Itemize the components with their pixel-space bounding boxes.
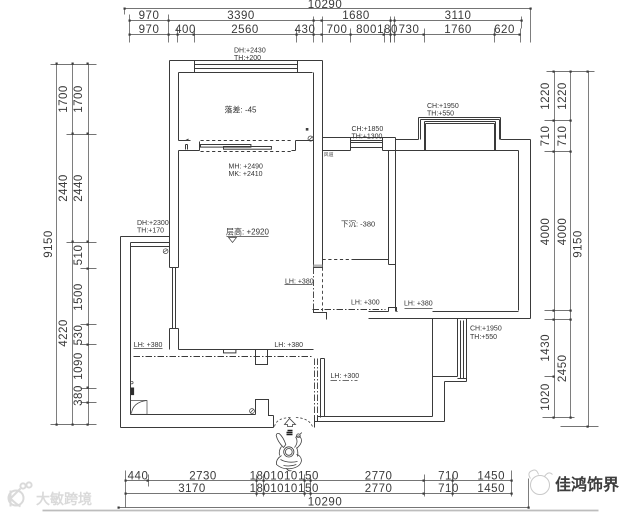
svg-text:1680: 1680	[342, 10, 370, 22]
svg-text:佳鸿饰界: 佳鸿饰界	[555, 475, 619, 494]
svg-text:800: 800	[356, 24, 377, 36]
svg-text:2560: 2560	[231, 24, 259, 36]
axis living-hall dashdot	[313, 268, 315, 310]
window W5 bathroom bay east	[433, 319, 467, 382]
wall entry right jamb	[315, 417, 318, 428]
svg-text:710: 710	[438, 483, 459, 495]
svg-text:LH: +380: LH: +380	[404, 301, 433, 308]
wall bottom left inner	[131, 414, 256, 416]
svg-text:710: 710	[438, 470, 459, 482]
svg-text:180: 180	[250, 483, 271, 495]
svg-text:LH: +300: LH: +300	[351, 300, 380, 307]
drain symbol kitchen	[163, 249, 168, 254]
left chain2 line	[72, 65, 74, 425]
wall kitchen top outer	[121, 236, 170, 238]
watermark right bird sketch	[529, 470, 553, 495]
svg-text:1020: 1020	[540, 383, 552, 411]
watermark left logo glyph	[9, 482, 32, 506]
bottom row B line	[126, 493, 512, 495]
svg-text:2440: 2440	[73, 174, 85, 202]
door jamb NW living	[179, 141, 200, 151]
svg-text:970: 970	[139, 10, 160, 22]
svg-text:150: 150	[298, 483, 319, 495]
wall section hatch cap	[314, 265, 323, 268]
wall west inner	[178, 73, 180, 350]
wall bathroom SE outer	[444, 382, 446, 422]
figure left arm	[276, 433, 286, 447]
figure shoulder arc	[279, 447, 298, 457]
wall bedroom top inner sill	[396, 150, 519, 152]
svg-text:430: 430	[295, 24, 316, 36]
svg-text:440: 440	[128, 470, 149, 482]
LABELS	[137, 48, 459, 237]
PLAN WALLS	[121, 61, 531, 428]
svg-text:1090: 1090	[73, 352, 85, 380]
wall stub living NE	[292, 141, 314, 151]
right chain R1 line	[554, 72, 556, 418]
extension lines top	[130, 15, 522, 43]
window W1 balcony top	[195, 61, 298, 73]
axis dining bottom dashdot	[134, 356, 314, 358]
column living bottom	[256, 350, 268, 365]
bottom grey rule	[43, 510, 599, 512]
window W2 living west	[170, 268, 179, 329]
svg-text:4000: 4000	[540, 218, 552, 246]
wall bedroom top outer	[396, 139, 531, 141]
axis hall bottom dashdot	[313, 309, 386, 311]
svg-text:大敏跨境: 大敏跨境	[36, 491, 92, 507]
right total 9150 line	[588, 72, 590, 427]
wall west outer	[169, 61, 171, 350]
svg-text:1010: 1010	[270, 483, 298, 495]
svg-text:1700: 1700	[73, 85, 85, 113]
svg-text:1760: 1760	[444, 24, 472, 36]
window W4 bedroom bay	[419, 118, 501, 151]
door swing arc right dashed	[295, 418, 313, 427]
DIMS-RIGHT	[543, 72, 599, 427]
window W3 middle room top	[351, 138, 383, 151]
left chain3 line	[88, 65, 90, 425]
bottom total 10290 line	[119, 507, 529, 509]
wall middle room bottom solid	[355, 259, 389, 261]
svg-text:700: 700	[327, 24, 348, 36]
svg-text:2770: 2770	[365, 483, 393, 495]
svg-text:MK: +2410: MK: +2410	[229, 171, 263, 178]
svg-text:620: 620	[494, 24, 515, 36]
jamb arrow mark	[185, 139, 189, 141]
DIMS-BOTTOM	[119, 471, 529, 508]
svg-text:400: 400	[175, 24, 196, 36]
wall balcony top outer	[170, 60, 323, 62]
window W6 kitchen top	[131, 243, 170, 247]
svg-text:1450: 1450	[477, 483, 505, 495]
entry mat bars	[287, 431, 293, 435]
basin kitchen	[131, 401, 148, 415]
door D1 sliding panels	[201, 145, 251, 148]
DIMS-TOP	[125, 9, 531, 43]
wall east of balcony outer	[322, 61, 324, 268]
figure foot	[287, 468, 292, 471]
door sill detail living bottom	[224, 350, 236, 353]
svg-text:1450: 1450	[477, 470, 505, 482]
wall bottom left outer	[121, 427, 274, 429]
svg-text:2440: 2440	[58, 174, 70, 202]
wall bathroom west	[321, 359, 325, 418]
wall kitchen west outer	[120, 237, 122, 428]
svg-text:10290: 10290	[308, 497, 342, 509]
cenggao underline	[227, 236, 269, 238]
svg-text:DH:+2430: DH:+2430	[234, 48, 266, 55]
wall balcony top inner	[179, 72, 313, 74]
svg-text:TH:+200: TH:+200	[234, 55, 261, 62]
svg-text:DH:+2300: DH:+2300	[137, 220, 169, 227]
svg-text:CH:+1950: CH:+1950	[470, 326, 502, 333]
wall middle room top band	[323, 138, 396, 151]
svg-text:1010: 1010	[270, 470, 298, 482]
svg-text:3170: 3170	[178, 483, 206, 495]
svg-text:1500: 1500	[73, 283, 85, 311]
bottom extension lines	[126, 471, 529, 508]
svg-text:CH:+1850: CH:+1850	[352, 126, 384, 133]
wall middle-right band line1	[388, 151, 390, 265]
drain symbol balcony	[308, 136, 313, 141]
svg-text:4000: 4000	[557, 218, 569, 246]
svg-text:510: 510	[73, 245, 85, 266]
svg-text:下沉: -380: 下沉: -380	[341, 220, 375, 229]
wall bedroom bottom outer	[369, 318, 531, 320]
dim row3 line	[130, 34, 521, 36]
wall kitchen west inner	[130, 247, 132, 415]
pipe kitchen	[131, 388, 135, 396]
svg-text:落差: -45: 落差: -45	[225, 105, 258, 115]
svg-text:层高: +2920: 层高: +2920	[226, 227, 269, 237]
pipe circle kitchen	[131, 381, 134, 384]
wall middle-right band line2	[389, 138, 396, 312]
svg-text:710: 710	[557, 126, 569, 147]
figure right arm	[295, 436, 302, 449]
entry arrow	[285, 419, 296, 427]
door swing arc left dashed	[275, 418, 292, 427]
axis entry screen dashdot 1	[314, 359, 316, 417]
svg-text:TH:+550: TH:+550	[427, 110, 454, 117]
svg-text:710: 710	[540, 126, 552, 147]
svg-text:1220: 1220	[557, 82, 569, 110]
dim text top	[139, 0, 515, 36]
wall bathroom east inner	[432, 319, 434, 417]
wall east of balcony inner	[314, 73, 323, 268]
wall bedroom bottom inner	[369, 311, 519, 313]
axis entry screen dashdot 2	[317, 359, 319, 417]
left total 9150 line	[56, 65, 58, 425]
svg-text:2730: 2730	[189, 470, 217, 482]
figure body	[276, 455, 301, 469]
svg-text:1220: 1220	[540, 82, 552, 110]
svg-text:TH:+1300: TH:+1300	[352, 133, 383, 140]
ENTRY	[275, 418, 313, 471]
svg-text:LH: +300: LH: +300	[331, 373, 360, 380]
wall middle room bottom dashed	[323, 259, 355, 261]
dim row2 line	[130, 20, 522, 22]
SYMBOLS	[131, 128, 334, 414]
svg-text:LH: +380: LH: +380	[274, 342, 303, 349]
column entry left	[256, 400, 274, 428]
svg-text:MH: +2490: MH: +2490	[229, 163, 264, 170]
axis hall west dashed	[322, 268, 324, 313]
right connectors	[543, 72, 599, 427]
svg-text:TH:+170: TH:+170	[137, 228, 164, 235]
figure hand right	[297, 434, 301, 438]
wall notch hall	[389, 308, 397, 312]
svg-text:180: 180	[377, 24, 398, 36]
svg-text:180: 180	[250, 470, 271, 482]
svg-text:3390: 3390	[227, 10, 255, 22]
LH underlines	[134, 285, 433, 381]
svg-text:CH:+1950: CH:+1950	[427, 103, 459, 110]
dim dots top	[124, 8, 532, 36]
svg-text:3110: 3110	[445, 10, 472, 22]
svg-text:TH:+550: TH:+550	[470, 334, 497, 341]
wall bedroom east inner	[518, 151, 520, 311]
wall bedroom east outer	[530, 140, 532, 319]
WATERMARKS	[9, 470, 620, 511]
figure person head	[284, 447, 294, 457]
svg-text:4220: 4220	[58, 319, 70, 347]
wall bottom right outer	[315, 421, 445, 423]
svg-text:9150: 9150	[573, 230, 585, 258]
svg-text:730: 730	[399, 24, 420, 36]
wall bottom right inner	[318, 416, 433, 418]
left connectors	[51, 65, 97, 425]
cenggao triangle	[229, 238, 237, 243]
svg-text:10290: 10290	[308, 0, 342, 11]
right chain R2 line	[570, 72, 572, 418]
dim line total 10290 top	[125, 9, 531, 43]
svg-text:2450: 2450	[557, 355, 569, 383]
dashed/axis lines	[134, 265, 386, 417]
drain symbol entry	[250, 409, 255, 414]
svg-text:380: 380	[73, 385, 85, 406]
figure body fold	[281, 460, 298, 466]
dot balcony corner	[306, 128, 309, 131]
svg-text:风道: 风道	[324, 151, 334, 158]
door D1 balcony sliding track dashes	[201, 141, 292, 152]
svg-text:2770: 2770	[365, 470, 393, 482]
wall hall south jog	[314, 310, 327, 320]
wall living bottom	[179, 349, 314, 351]
svg-text:530: 530	[73, 325, 85, 346]
svg-text:1430: 1430	[540, 334, 552, 362]
svg-text:150: 150	[298, 470, 319, 482]
svg-text:9150: 9150	[43, 230, 55, 258]
DIMS-LEFT	[51, 65, 97, 425]
bottom row A line	[126, 480, 512, 482]
svg-text:1700: 1700	[58, 85, 70, 113]
svg-text:970: 970	[139, 24, 160, 36]
